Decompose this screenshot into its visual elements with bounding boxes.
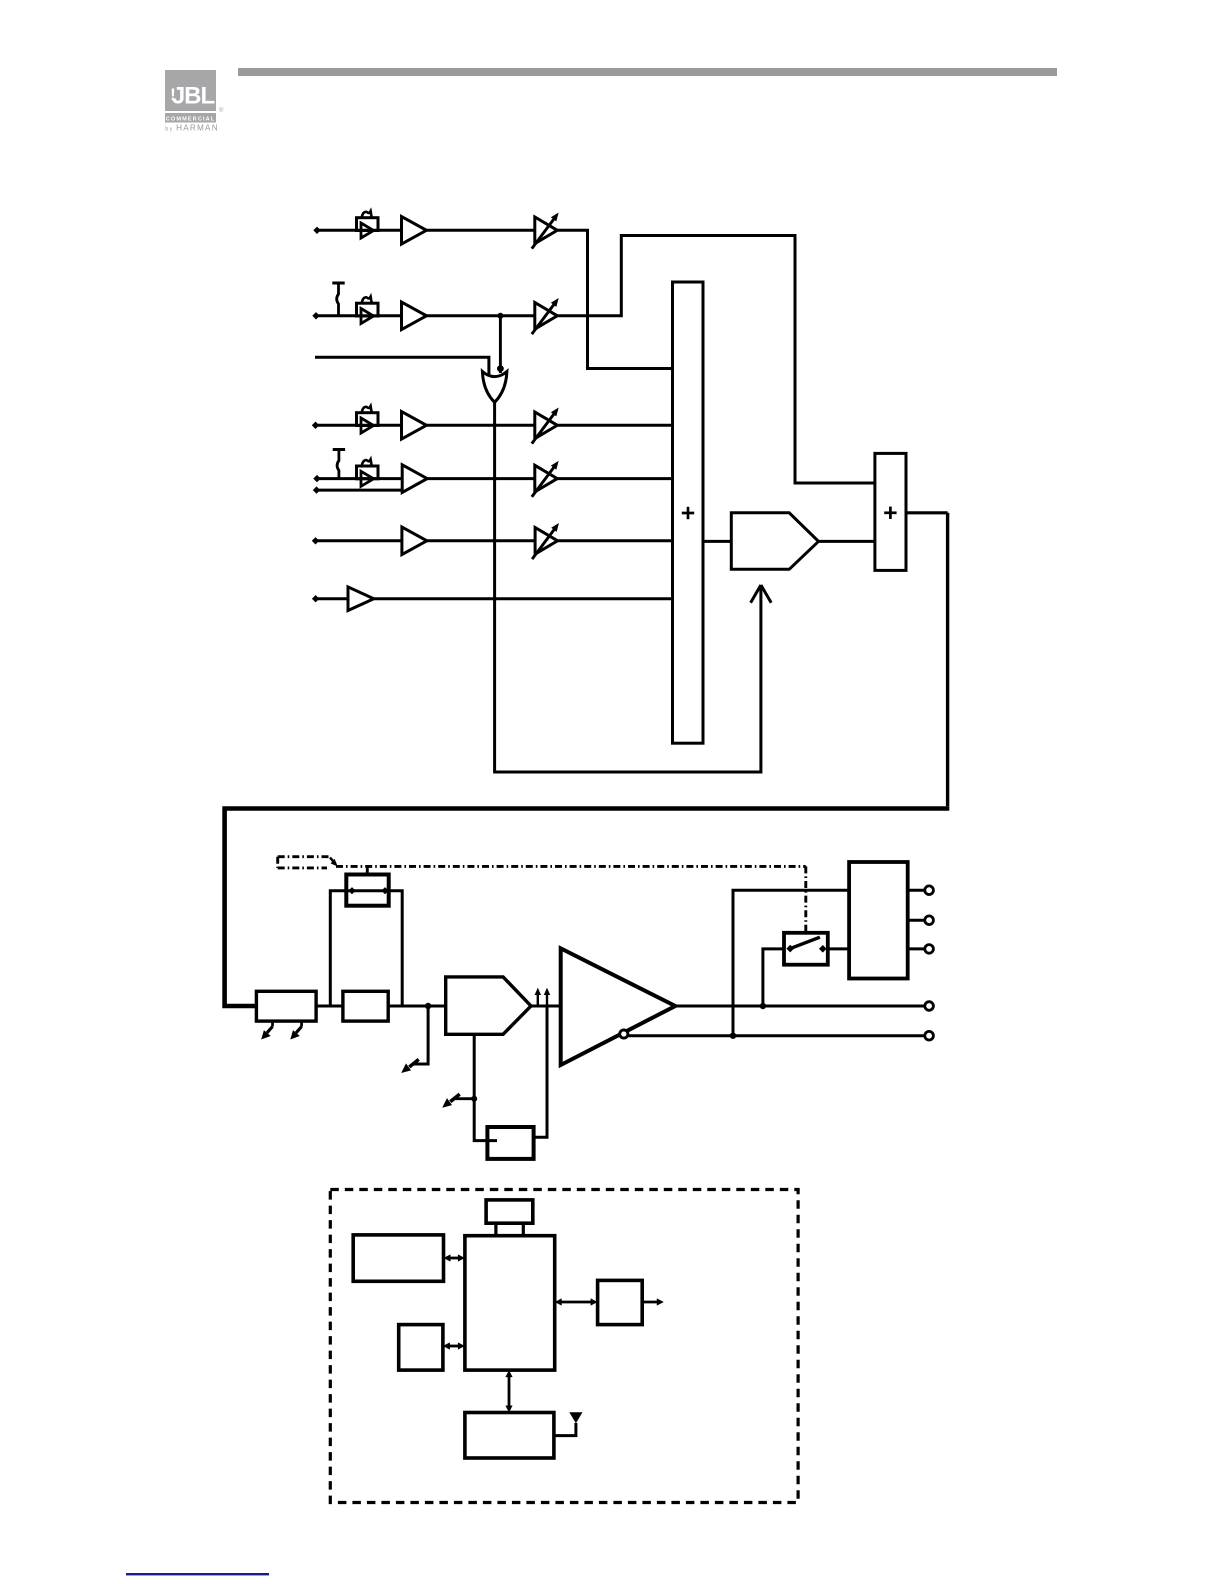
svg-text:®: ® xyxy=(219,107,224,114)
svg-text:JBL: JBL xyxy=(172,83,215,110)
svg-text:COMMERCIAL: COMMERCIAL xyxy=(166,116,216,122)
svg-text:!: ! xyxy=(170,85,176,104)
